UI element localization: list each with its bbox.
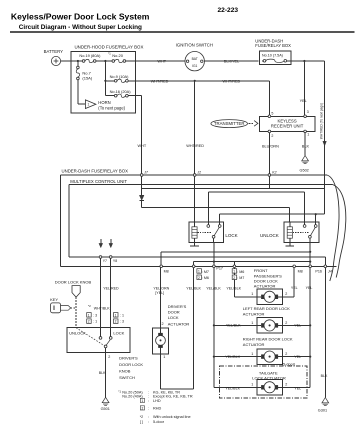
svg-text:No.9 (10A): No.9 (10A) — [110, 74, 130, 79]
svg-text:BATTERY: BATTERY — [44, 49, 64, 54]
svg-text:1: 1 — [141, 399, 143, 403]
svg-text:: 1: : 1 — [93, 320, 97, 324]
svg-text:WHT: WHT — [157, 60, 166, 64]
svg-text:YEL: YEL — [291, 286, 298, 290]
svg-text:WHT/RED (To next page): WHT/RED (To next page) — [320, 103, 324, 139]
svg-text:2: 2 — [108, 355, 110, 359]
svg-text:1: 1 — [251, 292, 253, 296]
svg-text:: M7: : M7 — [237, 276, 244, 280]
svg-text:(5-door): (5-door) — [282, 363, 296, 367]
svg-text:: M6: : M6 — [202, 276, 209, 280]
svg-text:1: 1 — [198, 270, 200, 274]
svg-text:P16: P16 — [315, 270, 322, 274]
svg-text::: : — [148, 420, 149, 424]
svg-text:BLU/ORN: BLU/ORN — [262, 144, 279, 148]
svg-text:DOOR LOCK KNOB: DOOR LOCK KNOB — [55, 279, 92, 284]
svg-text:2: 2 — [285, 383, 287, 387]
svg-text:P17: P17 — [216, 266, 223, 270]
svg-text:LOCK: LOCK — [225, 233, 237, 238]
svg-text:WHT/RED: WHT/RED — [151, 79, 169, 83]
svg-text:LOCK ACTUATOR: LOCK ACTUATOR — [252, 376, 286, 381]
svg-text:YEL/BLK: YEL/BLK — [206, 286, 221, 290]
svg-text:YEL/BLK: YEL/BLK — [225, 355, 240, 359]
svg-text:WHT/BLK: WHT/BLK — [94, 306, 111, 310]
svg-text:UNLOCK: UNLOCK — [69, 330, 86, 335]
svg-text:: M7: : M7 — [202, 270, 209, 274]
svg-text:MULTIPLEX CONTROL UNIT: MULTIPLEX CONTROL UNIT — [70, 179, 127, 184]
svg-text:DRIVER'S: DRIVER'S — [168, 304, 187, 309]
svg-text:BLK: BLK — [302, 144, 310, 148]
svg-text:*1: *1 — [108, 51, 111, 55]
svg-text:G502: G502 — [300, 169, 309, 173]
svg-text:2: 2 — [285, 352, 287, 356]
svg-text:BLK/YEL: BLK/YEL — [224, 60, 239, 64]
svg-text:LOCK: LOCK — [168, 315, 179, 320]
svg-text:1: 1 — [251, 321, 253, 325]
svg-text:SWITCH: SWITCH — [119, 375, 135, 380]
svg-text:[YEL]: [YEL] — [155, 291, 164, 295]
svg-text:[ ]: [ ] — [140, 420, 143, 424]
svg-text:2: 2 — [285, 292, 287, 296]
svg-text:2: 2 — [271, 134, 273, 138]
svg-text::: : — [148, 399, 149, 403]
svg-text:: 1: : 1 — [120, 313, 124, 317]
svg-text:DOOR: DOOR — [168, 310, 180, 315]
svg-text:RHD: RHD — [153, 406, 161, 410]
svg-text:1: 1 — [115, 313, 117, 317]
svg-text:2: 2 — [285, 321, 287, 325]
svg-text:LHD: LHD — [153, 399, 161, 403]
svg-text:2: 2 — [198, 276, 200, 280]
svg-text:*2: *2 — [88, 304, 91, 308]
svg-text:5: 5 — [271, 111, 273, 115]
svg-text:YEL: YEL — [306, 286, 313, 290]
svg-text:DRIVER'S: DRIVER'S — [119, 356, 138, 361]
svg-text:ACTUATOR: ACTUATOR — [243, 342, 265, 347]
svg-text:5-door: 5-door — [153, 420, 165, 424]
svg-text:No.20 (40A): No.20 (40A) — [122, 394, 143, 398]
svg-text:UNDER-DASH FUSE/RELAY BOX: UNDER-DASH FUSE/RELAY BOX — [62, 169, 129, 174]
svg-text:With unlock signal line: With unlock signal line — [153, 415, 191, 419]
svg-text:KEY: KEY — [50, 297, 58, 302]
svg-text:1: 1 — [88, 313, 90, 317]
svg-text:Circuit Diagram - Without Supe: Circuit Diagram - Without Super Locking — [19, 24, 142, 31]
svg-text:IGNITION SWITCH: IGNITION SWITCH — [176, 43, 213, 48]
svg-text:ACTUATOR: ACTUATOR — [168, 322, 190, 327]
svg-text:TRANSMITTER: TRANSMITTER — [214, 121, 245, 126]
svg-text:(To next page): (To next page) — [98, 106, 125, 111]
svg-text:BLK: BLK — [321, 374, 328, 378]
svg-text:(15A): (15A) — [82, 76, 92, 81]
svg-text:UNDER-HOOD FUSE/RELAY BOX: UNDER-HOOD FUSE/RELAY BOX — [75, 44, 144, 49]
svg-text:M8: M8 — [298, 270, 303, 274]
svg-text:BLK: BLK — [99, 371, 106, 375]
svg-text:*2: *2 — [140, 415, 143, 419]
svg-text::: : — [148, 415, 149, 419]
svg-text:YEL/RED: YEL/RED — [103, 287, 119, 291]
svg-text:1: 1 — [88, 103, 90, 107]
svg-text:: M6: : M6 — [237, 270, 244, 274]
svg-text:22-223: 22-223 — [218, 7, 239, 14]
svg-text:ACTUATOR: ACTUATOR — [243, 311, 265, 316]
svg-text:1: 1 — [163, 355, 165, 359]
svg-text:*1: *1 — [118, 389, 121, 393]
svg-text:: 3: : 3 — [120, 320, 124, 324]
svg-text:No.16 (20A): No.16 (20A) — [110, 89, 132, 94]
svg-text:3: 3 — [307, 110, 309, 114]
svg-text:G501: G501 — [101, 407, 110, 411]
svg-text:YEL/BLK: YEL/BLK — [226, 286, 241, 290]
svg-text:YEL: YEL — [300, 99, 307, 103]
svg-text:Y7: Y7 — [103, 259, 107, 263]
svg-text:1: 1 — [233, 270, 235, 274]
svg-text:1: 1 — [251, 383, 253, 387]
svg-text:WHT: WHT — [138, 144, 147, 148]
svg-text:YEL/BLK: YEL/BLK — [226, 324, 241, 328]
svg-text:2: 2 — [233, 276, 235, 280]
svg-text:1: 1 — [251, 352, 253, 356]
svg-text:Keyless/Power Door Lock System: Keyless/Power Door Lock System — [11, 12, 150, 22]
svg-text:2: 2 — [88, 320, 90, 324]
svg-text:HORN: HORN — [98, 100, 110, 105]
svg-text:WHT/RED: WHT/RED — [223, 79, 241, 83]
svg-text::: : — [148, 406, 149, 410]
svg-text:No.7: No.7 — [82, 70, 91, 75]
svg-text:YEL: YEL — [294, 324, 301, 328]
svg-text:ACTUATOR: ACTUATOR — [254, 284, 276, 289]
svg-text:Except KG, KE, KB, TR: Except KG, KE, KB, TR — [153, 394, 193, 398]
svg-text:YEL: YEL — [294, 355, 301, 359]
svg-text:G301: G301 — [318, 409, 327, 413]
svg-text:FUSE/RELAY BOX: FUSE/RELAY BOX — [255, 43, 291, 48]
svg-text:2: 2 — [141, 406, 143, 410]
svg-text:LOCK: LOCK — [113, 330, 124, 335]
svg-text:K2: K2 — [272, 171, 276, 175]
svg-text:IG1: IG1 — [192, 64, 197, 68]
svg-text:No.20: No.20 — [112, 53, 123, 58]
svg-text:: 3: : 3 — [93, 313, 97, 317]
svg-text:BAT: BAT — [192, 57, 198, 61]
svg-text:YEL: YEL — [294, 387, 301, 391]
svg-text:UNLOCK: UNLOCK — [260, 233, 279, 238]
svg-text:DOOR LOCK: DOOR LOCK — [119, 362, 143, 367]
svg-text:RECEIVER UNIT: RECEIVER UNIT — [271, 124, 304, 129]
svg-text:2: 2 — [115, 320, 117, 324]
svg-text:YEL/BLK: YEL/BLK — [186, 286, 201, 290]
svg-text:YEL/BLK: YEL/BLK — [225, 387, 240, 391]
svg-text:M8: M8 — [164, 270, 169, 274]
svg-text:WHT/RED: WHT/RED — [186, 144, 204, 148]
svg-text:J4: J4 — [327, 270, 332, 274]
svg-text:YEL/ORN: YEL/ORN — [153, 286, 169, 290]
svg-text:Y8: Y8 — [113, 259, 117, 263]
svg-text:J2: J2 — [196, 171, 201, 175]
svg-text:2: 2 — [162, 322, 164, 326]
svg-text:KNOB: KNOB — [119, 368, 131, 373]
svg-text::: : — [148, 394, 149, 398]
svg-text:No.19 (80A): No.19 (80A) — [79, 53, 101, 58]
svg-text:1: 1 — [307, 133, 309, 137]
svg-text:No.10 (7.5A): No.10 (7.5A) — [262, 53, 283, 57]
